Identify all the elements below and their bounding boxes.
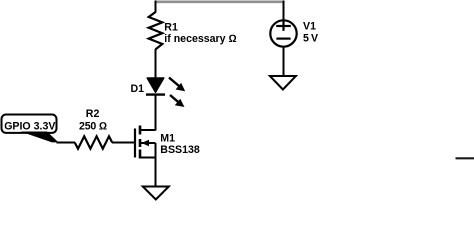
voltage source V1 (270, 20, 318, 46)
wire R1 to LED D1 (155, 49, 157, 79)
wire fragment at right edge (456, 157, 474, 159)
svg-text:R2: R2 (86, 108, 100, 120)
ground (below M1) (143, 187, 169, 200)
wire LED to M1 drain (155, 95, 157, 131)
svg-text:R1: R1 (164, 21, 178, 33)
svg-text:D1: D1 (131, 83, 145, 95)
svg-text:V1: V1 (303, 21, 316, 33)
wire top rail (cropped, gray) (155, 0, 285, 3)
gate plate (134, 129, 136, 158)
svg-text:BSS138: BSS138 (160, 144, 200, 156)
channel segments (139, 126, 142, 135)
wire top rail left drop to R1 (155, 1, 157, 13)
wire flag to R2 (57, 142, 76, 144)
svg-text:M1: M1 (160, 133, 175, 145)
resistor R2 (75, 136, 113, 148)
ground (below V1) (270, 76, 296, 90)
transistor M1 (NMOS) (135, 126, 200, 159)
svg-text:GPIO 3.3V: GPIO 3.3V (4, 121, 55, 133)
drain lead (140, 129, 156, 131)
svg-text:if necessary Ω: if necessary Ω (164, 33, 236, 45)
wire top rail to V1 (283, 1, 285, 21)
svg-text:250 Ω: 250 Ω (79, 120, 107, 132)
svg-text:5 V: 5 V (303, 33, 318, 45)
source lead (140, 157, 156, 159)
node GPIO 3.3V flag (2, 115, 59, 143)
wire R2 to M1 gate (112, 142, 135, 144)
wire V1 to ground (283, 47, 285, 77)
LED D1 (131, 78, 186, 107)
wire M1 source to ground (155, 143, 157, 187)
resistor R1 (149, 12, 163, 49)
body lead with arrow (141, 142, 156, 144)
